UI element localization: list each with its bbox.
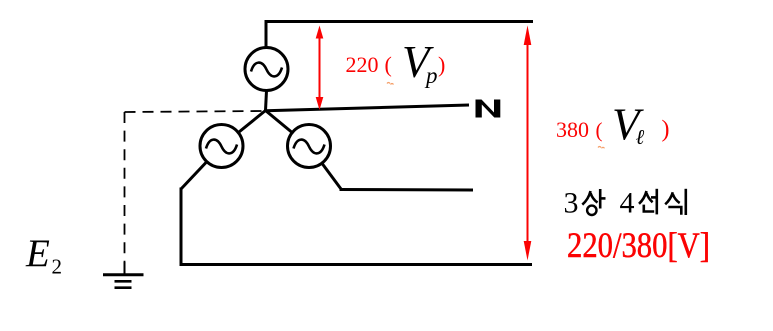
AC source G2 (left) [200, 125, 243, 168]
svg-text:ℓ: ℓ [636, 125, 645, 149]
AC source G1 (top) [245, 48, 288, 91]
hangul SANG [582, 189, 605, 215]
ground [103, 262, 144, 288]
wire G3 bottom-right lead [323, 164, 342, 189]
dimension arrow 380V (line voltage) [524, 25, 532, 260]
svg-text:220/380[V]: 220/380[V] [567, 225, 710, 265]
svg-text:(: ( [385, 52, 392, 77]
svg-text:): ) [662, 117, 670, 143]
label 380 ( Vl ) [556, 100, 670, 150]
svg-text:2: 2 [52, 255, 63, 279]
label N (neutral) [476, 100, 501, 118]
wire G2 bottom-left lead [181, 163, 206, 190]
wire left vertical [180, 188, 183, 265]
wire neutral N from star point [266, 105, 470, 111]
wire G1 top lead [265, 20, 268, 47]
svg-text:): ) [438, 52, 445, 77]
svg-text:4: 4 [620, 187, 635, 220]
svg-text:E: E [25, 232, 50, 275]
dashed wire vertical to ground [124, 112, 126, 262]
label 3-phase 4-wire (3상 4선식) [564, 187, 686, 220]
AC source G3 (right) [288, 125, 331, 168]
wire bottom horizontal (phase B line) [180, 263, 533, 266]
wire phase C horizontal [340, 188, 474, 192]
svg-text:380: 380 [556, 117, 589, 142]
svg-text:p: p [424, 63, 438, 88]
svg-text:220: 220 [346, 52, 379, 77]
wire G2 lead to star point [239, 111, 266, 133]
hangul SEON [639, 189, 657, 215]
svg-text:3: 3 [564, 187, 579, 220]
wire G1 bottom lead [266, 91, 267, 111]
svg-text:(: ( [596, 118, 603, 142]
label 220 ( Vp ) [346, 37, 446, 88]
wire top horizontal (phase A line) [266, 20, 534, 23]
dashed wire horizontal to star point [125, 111, 266, 112]
hangul SIK [665, 189, 686, 215]
label E2 (ground electrode) [25, 232, 62, 279]
dimension arrow 220V (phase voltage) [316, 26, 324, 111]
wire G3 lead to star point [266, 111, 292, 133]
